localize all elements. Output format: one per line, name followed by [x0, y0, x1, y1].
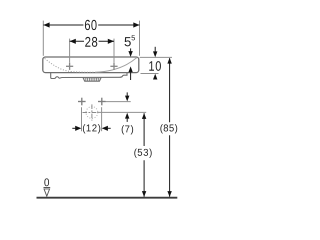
dimension 28 arrow right — [108, 39, 114, 44]
drain horizontal centerline — [83, 112, 98, 114]
basin foot / under-body profile — [51, 73, 127, 79]
dimension 60 arrow left — [43, 22, 49, 27]
dimension (53) line — [143, 113, 145, 196]
dimension 60 arrow right — [133, 22, 139, 27]
trap dip below foot — [83, 77, 101, 81]
datum underline — [44, 187, 51, 189]
drain reference line — [97, 111, 146, 113]
dimension 60 extension line left — [42, 21, 44, 56]
datum triangle — [44, 189, 50, 196]
dimension 60 label — [85, 20, 97, 30]
drain vertical centerline — [91, 104, 93, 120]
dimension 5.5 label — [125, 37, 131, 46]
dimension 28 line — [70, 40, 114, 42]
dimension 28 arrow left — [70, 39, 76, 44]
fixing hole cross right — [98, 98, 106, 106]
dimension 28 extension line left — [69, 39, 71, 63]
fixing holes reference line — [106, 101, 131, 103]
bowl interior curve right — [95, 58, 137, 73]
datum 0 label — [44, 178, 49, 186]
ground line — [37, 197, 178, 199]
tap hole cross left — [66, 63, 73, 70]
dimension (85) line — [169, 58, 171, 197]
dimension (12) right arrow — [102, 126, 108, 131]
dimension (53) label — [134, 149, 151, 158]
tap hole cross right — [110, 63, 117, 70]
dimension (85) bottom arrow — [167, 191, 171, 197]
dimension 5.5 upper arrow — [130, 48, 132, 51]
dimension (53) top arrow — [142, 113, 146, 119]
dimension (85) top arrow — [167, 58, 171, 64]
dimension 10 lower arrow — [153, 74, 157, 80]
dimension 10 label — [149, 61, 161, 71]
fixing hole cross left — [78, 98, 86, 106]
bowl interior dotted curve left — [45, 58, 95, 72]
dimension 60 line — [43, 24, 139, 26]
dimension (53) bottom arrow — [142, 191, 146, 197]
bottom reference line right — [141, 73, 159, 75]
dimension (12) label — [83, 124, 100, 133]
trap rib block — [84, 78, 100, 81]
dimension (7) upper arrow — [126, 92, 128, 96]
dimension 5.5 lower arrow — [128, 66, 132, 72]
drain circle — [86, 107, 98, 119]
dimension 60 extension line right — [139, 21, 141, 56]
dimension (12) extension line right — [101, 107, 103, 131]
dimension 5.5 superscript — [132, 35, 136, 40]
dimension (85) label — [160, 124, 177, 133]
dimension (7) lower arrow — [125, 113, 129, 119]
dimension (12) left arrow — [72, 127, 75, 129]
washbasin rim outline (front view) — [43, 57, 139, 73]
dimension 28 extension line right — [113, 39, 115, 63]
dimension (7) label — [122, 125, 133, 134]
dimension (12) extension line left — [81, 107, 83, 131]
dimension 28 label — [85, 37, 97, 47]
dimension 10 upper arrow — [154, 47, 156, 52]
top reference line right — [140, 56, 172, 58]
